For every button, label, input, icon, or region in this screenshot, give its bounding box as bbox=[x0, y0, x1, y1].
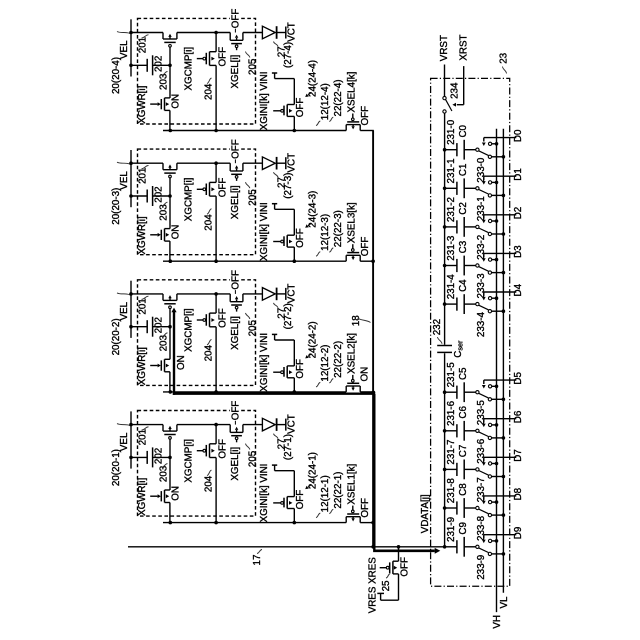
node: VEL-rail junction (block 3) bbox=[129, 161, 133, 165]
node: column-C7 junction bbox=[443, 468, 447, 472]
node: 233-1 VH junction bbox=[495, 181, 499, 185]
svg-text:ON: ON bbox=[176, 355, 187, 370]
capacitor C5 bbox=[445, 391, 457, 393]
svg-text:22(22-1): 22(22-1) bbox=[333, 472, 344, 509]
svg-text:XRST: XRST bbox=[459, 34, 470, 60]
svg-text:C5: C5 bbox=[458, 367, 469, 380]
node: rail-204 junction (block 1) bbox=[214, 423, 218, 427]
svg-text:C7: C7 bbox=[458, 445, 469, 458]
svg-text:201: 201 bbox=[138, 429, 149, 445]
capacitor C8 bbox=[445, 507, 457, 509]
svg-text:VEL: VEL bbox=[119, 171, 130, 190]
svg-text:C6: C6 bbox=[458, 406, 469, 419]
svg-text:C8: C8 bbox=[458, 483, 469, 496]
node: column-C1 junction bbox=[443, 187, 447, 191]
svg-text:205: 205 bbox=[247, 189, 258, 206]
svg-text:201: 201 bbox=[138, 168, 149, 184]
svg-text:D7: D7 bbox=[513, 449, 524, 462]
node: column-C2 junction bbox=[443, 225, 447, 229]
transistor 201 (block 1) bbox=[163, 425, 177, 458]
node: VEL-rail junction (block 2) bbox=[129, 292, 133, 296]
svg-text:233-7: 233-7 bbox=[476, 477, 487, 502]
wire: rail to diode (block 1) bbox=[243, 424, 263, 426]
node: 233-3 VH junction bbox=[495, 258, 499, 262]
switch 233-3 bbox=[476, 264, 479, 267]
svg-text:23: 23 bbox=[498, 52, 509, 63]
svg-text:XSEL2[k]: XSEL2[k] bbox=[347, 333, 358, 374]
svg-text:ON: ON bbox=[359, 367, 370, 382]
node: column-C4 junction bbox=[443, 302, 447, 306]
node: column-C5 junction bbox=[443, 390, 447, 394]
label OFF at 205 (block 2) bbox=[230, 278, 239, 281]
svg-text:XSEL3[k]: XSEL3[k] bbox=[347, 202, 358, 243]
svg-text:C3: C3 bbox=[458, 240, 469, 253]
wire: rail to diode (block 3) bbox=[243, 162, 263, 164]
node: 233-6 VH junction bbox=[495, 423, 499, 427]
VEL supply line (block 1) bbox=[130, 411, 132, 468]
svg-text:231-1: 231-1 bbox=[446, 158, 457, 183]
svg-text:233-4: 233-4 bbox=[476, 311, 487, 337]
wire: data line 12(12-1) bbox=[163, 522, 346, 524]
svg-text:VCT: VCT bbox=[286, 153, 297, 173]
control line D2 bbox=[484, 214, 517, 216]
node: 233-6 VL junction bbox=[502, 436, 506, 440]
node: 233-2 VH junction bbox=[495, 219, 499, 223]
svg-text:233-1: 233-1 bbox=[476, 196, 487, 221]
svg-text:12(12-2): 12(12-2) bbox=[320, 345, 331, 382]
XRST control line bbox=[463, 66, 465, 105]
svg-text:OFF: OFF bbox=[230, 9, 241, 29]
svg-text:205: 205 bbox=[247, 450, 258, 467]
svg-text:XGEL[i]: XGEL[i] bbox=[230, 447, 241, 481]
wire: VINI feed (block 2) bbox=[272, 334, 294, 366]
svg-text:205: 205 bbox=[247, 320, 258, 337]
OLED diode 27 (block 3) bbox=[262, 157, 285, 170]
svg-text:D4: D4 bbox=[513, 283, 524, 296]
wire: data line 12(12-3) bbox=[163, 260, 346, 262]
capacitor C3 bbox=[445, 265, 457, 267]
svg-text:233-8: 233-8 bbox=[476, 515, 487, 541]
VRST feed line bbox=[444, 65, 446, 97]
transistor 203 XGWR (block 1) bbox=[150, 490, 170, 503]
svg-text:202: 202 bbox=[154, 448, 165, 464]
svg-text:XGEL[i]: XGEL[i] bbox=[230, 54, 241, 88]
wire: VL rail bbox=[502, 129, 504, 593]
svg-text:231-0: 231-0 bbox=[446, 119, 457, 145]
transistor 201 (block 4) bbox=[163, 33, 177, 66]
node: XSEL1-trunk junction bbox=[371, 521, 375, 525]
node: 233-3 VL junction bbox=[502, 271, 506, 275]
svg-text:XGINI[k] VINI: XGINI[k] VINI bbox=[259, 464, 270, 523]
switch 233-5 bbox=[476, 391, 479, 394]
svg-text:VCT: VCT bbox=[286, 414, 297, 434]
wire: converter input column (lower) bbox=[444, 353, 446, 547]
node: 233-8 VH junction bbox=[495, 500, 499, 504]
node: VEL-rail junction (block 1) bbox=[129, 423, 133, 427]
capacitor 202 (block 4) bbox=[131, 55, 170, 75]
wire: data line 17 / VDATA[j] bbox=[128, 546, 445, 548]
svg-text:OFF: OFF bbox=[217, 439, 228, 459]
node: 24-12 junction (block 3) bbox=[293, 259, 297, 263]
transistor 204 XGCMP (block 2) bbox=[197, 294, 216, 392]
svg-text:231-4: 231-4 bbox=[446, 274, 457, 300]
node: 233-4 VH junction bbox=[495, 296, 499, 300]
transistor 22 XSEL4 (block 4) bbox=[346, 114, 360, 131]
node: cap-node junction (block 1) bbox=[168, 456, 172, 460]
svg-text:VDATA[j]: VDATA[j] bbox=[420, 494, 431, 533]
svg-text:231-6: 231-6 bbox=[446, 400, 457, 426]
node: 204-12 junction (block 2) bbox=[214, 390, 218, 394]
svg-text:(27-1): (27-1) bbox=[283, 434, 294, 460]
svg-text:OFF: OFF bbox=[360, 498, 371, 518]
svg-text:XGWR[i]: XGWR[i] bbox=[137, 216, 148, 254]
svg-text:D8: D8 bbox=[513, 487, 524, 500]
switch 233-9 bbox=[476, 545, 479, 548]
node: column-C8 junction bbox=[443, 506, 447, 510]
wire: VINI feed (block 3) bbox=[272, 204, 294, 236]
svg-text:12(12-1): 12(12-1) bbox=[320, 475, 331, 512]
capacitor 202 (block 2) bbox=[131, 317, 170, 337]
wire: VEL rail segment a (block 4) bbox=[131, 32, 163, 34]
switch 233-1 bbox=[476, 187, 479, 190]
svg-text:XGEL[i]: XGEL[i] bbox=[230, 316, 241, 350]
svg-text:D2: D2 bbox=[513, 207, 524, 220]
wire: VINI feed (block 1) bbox=[272, 465, 294, 497]
transistor 203 XGWR (block 4) bbox=[150, 98, 170, 111]
svg-text:OFF: OFF bbox=[360, 237, 371, 257]
transistor 24 XGINI (block 2) bbox=[273, 366, 294, 392]
svg-text:232: 232 bbox=[432, 319, 443, 335]
node: 233-4 VL junction bbox=[502, 309, 506, 313]
transistor 205 XGEL (block 1) bbox=[230, 425, 243, 443]
wire: VEL rail segment b (block 1) bbox=[177, 424, 230, 426]
svg-text:202: 202 bbox=[154, 317, 165, 333]
node: 204-12 junction (block 3) bbox=[214, 259, 218, 263]
svg-text:201: 201 bbox=[138, 37, 149, 53]
node: 233-5 VL junction bbox=[502, 398, 506, 402]
svg-text:OFF: OFF bbox=[360, 106, 371, 126]
node: 233-8 VL junction bbox=[502, 513, 506, 517]
svg-text:XGWR[i]: XGWR[i] bbox=[137, 85, 148, 123]
node: 204-12 junction (block 1) bbox=[214, 521, 218, 525]
svg-text:C1: C1 bbox=[458, 164, 469, 177]
svg-text:203: 203 bbox=[158, 204, 169, 221]
node: XSEL2-trunk junction bbox=[371, 391, 375, 395]
svg-text:ON: ON bbox=[170, 94, 181, 109]
svg-text:(27-3): (27-3) bbox=[283, 173, 294, 199]
VCT terminal (block 1) bbox=[285, 419, 287, 431]
wire: VEL rail segment a (block 1) bbox=[131, 424, 163, 426]
svg-text:22(22-3): 22(22-3) bbox=[333, 210, 344, 247]
svg-text:(27-2): (27-2) bbox=[283, 303, 294, 329]
wire: VDATA trunk 18 bbox=[372, 131, 374, 547]
node: 24-12 junction (block 2) bbox=[293, 390, 297, 394]
svg-text:233-3: 233-3 bbox=[476, 273, 487, 299]
svg-text:24(24-1): 24(24-1) bbox=[307, 452, 318, 489]
node: VEL-rail junction (block 4) bbox=[129, 31, 133, 35]
svg-text:OFF: OFF bbox=[295, 490, 306, 510]
switch 233-4 bbox=[476, 302, 479, 305]
node: 233-7 VH junction bbox=[495, 462, 499, 466]
svg-text:OFF: OFF bbox=[217, 308, 228, 328]
svg-text:25: 25 bbox=[381, 580, 392, 591]
control line D8 bbox=[484, 495, 517, 497]
svg-text:OFF: OFF bbox=[295, 98, 306, 118]
transistor 205 XGEL (block 3) bbox=[230, 163, 243, 181]
pixel circuit 20(20-1) dashed boundary bbox=[138, 411, 256, 517]
control line D9 bbox=[484, 534, 517, 536]
bold path along data line 12-2 bbox=[173, 393, 375, 395]
node: 233-7 VL junction bbox=[502, 475, 506, 479]
transistor 22 XSEL3 (block 3) bbox=[346, 244, 360, 261]
node: XSEL3-trunk junction bbox=[371, 259, 375, 263]
label OFF at 205 (block 4) bbox=[230, 17, 239, 20]
VCT terminal (block 2) bbox=[285, 288, 287, 300]
node: 233-1 VL junction bbox=[502, 194, 506, 198]
OLED diode 27 (block 4) bbox=[262, 26, 285, 39]
capacitor C7 bbox=[445, 468, 457, 470]
node: rail-204 junction (block 3) bbox=[214, 161, 218, 165]
svg-text:17: 17 bbox=[252, 555, 263, 566]
svg-text:20(20-1): 20(20-1) bbox=[111, 449, 122, 486]
svg-text:231-2: 231-2 bbox=[446, 197, 457, 222]
svg-text:204: 204 bbox=[203, 83, 214, 100]
OLED diode 27 (block 1) bbox=[262, 418, 285, 431]
svg-text:OFF: OFF bbox=[230, 270, 241, 290]
svg-text:231-7: 231-7 bbox=[446, 440, 457, 465]
wire: gate node (block 2) bbox=[169, 327, 171, 360]
bold path to converter box bbox=[373, 549, 435, 552]
svg-text:VCT: VCT bbox=[286, 284, 297, 304]
svg-text:22(22-2): 22(22-2) bbox=[333, 341, 344, 378]
svg-text:OFF: OFF bbox=[295, 359, 306, 379]
wire: VEL rail segment b (block 3) bbox=[177, 162, 230, 164]
svg-text:D6: D6 bbox=[513, 410, 524, 423]
svg-text:203: 203 bbox=[158, 335, 169, 352]
label OFF at 205 (block 1) bbox=[230, 409, 239, 412]
svg-text:XGWR[i]: XGWR[i] bbox=[137, 347, 148, 385]
capacitor C0 bbox=[445, 149, 457, 151]
svg-text:Cser: Cser bbox=[453, 340, 465, 358]
svg-text:22(22-4): 22(22-4) bbox=[333, 79, 344, 116]
switch 233-0 bbox=[476, 148, 479, 151]
svg-text:202: 202 bbox=[154, 56, 165, 72]
control line D4 bbox=[484, 291, 517, 293]
svg-text:18: 18 bbox=[351, 315, 362, 326]
wire: data line 12(12-2) bbox=[163, 391, 346, 393]
svg-text:D3: D3 bbox=[513, 245, 524, 258]
wire: gate node (block 4) bbox=[169, 65, 171, 98]
transistor 24 XGINI (block 1) bbox=[273, 497, 294, 523]
svg-text:XSEL1[k]: XSEL1[k] bbox=[347, 463, 358, 504]
pixel circuit 20(20-4) dashed boundary bbox=[138, 18, 256, 124]
control line D7 bbox=[484, 456, 517, 458]
node: 203-12 junction (block 3) bbox=[169, 259, 173, 263]
transistor 204 XGCMP (block 1) bbox=[197, 425, 216, 523]
svg-text:204: 204 bbox=[203, 345, 214, 362]
svg-text:D1: D1 bbox=[513, 168, 524, 181]
wire: data line 12(12-4) bbox=[163, 130, 346, 132]
svg-text:201: 201 bbox=[138, 298, 149, 314]
wire: 203 to data line (block 3) bbox=[169, 241, 171, 261]
svg-text:OFF: OFF bbox=[230, 401, 241, 421]
svg-text:ON: ON bbox=[170, 486, 181, 501]
node: 25-17 junction bbox=[397, 545, 401, 549]
transistor 24 XGINI (block 4) bbox=[273, 105, 294, 131]
node: 24-12 junction (block 4) bbox=[293, 129, 297, 133]
node: 233-0 VH junction bbox=[495, 142, 499, 146]
wire: 22-line to trunk (block 3) bbox=[360, 260, 374, 262]
svg-text:C9: C9 bbox=[458, 522, 469, 535]
svg-text:C0: C0 bbox=[458, 124, 469, 137]
svg-text:20(20-3): 20(20-3) bbox=[111, 188, 122, 225]
node: 233-9 VL junction bbox=[502, 552, 506, 556]
svg-text:XSEL4[k]: XSEL4[k] bbox=[347, 71, 358, 112]
node: cap-node junction (block 3) bbox=[168, 194, 172, 198]
svg-text:VRST: VRST bbox=[439, 35, 450, 61]
svg-text:24(24-3): 24(24-3) bbox=[307, 191, 318, 228]
switch 233-8 bbox=[476, 506, 479, 509]
wire: 203 to data line (block 2) bbox=[169, 372, 171, 392]
svg-text:XGCMP[i]: XGCMP[i] bbox=[183, 308, 194, 352]
control line D0 bbox=[484, 137, 517, 139]
svg-text:XGCMP[i]: XGCMP[i] bbox=[183, 47, 194, 91]
svg-text:VCT: VCT bbox=[286, 22, 297, 42]
pixel circuit 20(20-2) dashed boundary bbox=[138, 280, 256, 386]
svg-text:12(12-3): 12(12-3) bbox=[320, 214, 331, 251]
svg-text:231-5: 231-5 bbox=[446, 362, 457, 388]
transistor 205 XGEL (block 2) bbox=[230, 294, 243, 312]
wire: gate node (block 3) bbox=[169, 196, 171, 229]
wire: 22-line to trunk (block 4) bbox=[360, 130, 374, 132]
switch 233-7 bbox=[476, 468, 479, 471]
svg-text:203: 203 bbox=[158, 465, 169, 482]
svg-text:20(20-4): 20(20-4) bbox=[111, 57, 122, 94]
node: 203-12 junction (block 4) bbox=[169, 129, 173, 133]
node: column-C0 junction bbox=[443, 148, 447, 152]
svg-text:202: 202 bbox=[154, 186, 165, 202]
node: column-C3 junction bbox=[443, 264, 447, 268]
wire: VEL rail segment b (block 2) bbox=[177, 293, 230, 295]
transistor 204 XGCMP (block 4) bbox=[197, 33, 216, 131]
svg-text:233-5: 233-5 bbox=[476, 400, 487, 426]
wire: VH rail bbox=[496, 129, 498, 612]
svg-text:XGINI[k] VINI: XGINI[k] VINI bbox=[259, 202, 270, 261]
capacitor C9 bbox=[445, 546, 457, 548]
svg-text:20(20-2): 20(20-2) bbox=[111, 318, 122, 355]
switch 233-6 bbox=[476, 429, 479, 432]
node: 233-5 VH junction bbox=[495, 385, 499, 389]
transistor 201 (block 2) bbox=[163, 294, 177, 327]
VEL supply line (block 2) bbox=[130, 281, 132, 338]
node: VEL-cap junction (block 3) bbox=[129, 194, 133, 198]
wire: 22-line to trunk (block 1) bbox=[360, 522, 374, 524]
VEL supply line (block 3) bbox=[130, 150, 132, 207]
svg-text:VH: VH bbox=[492, 615, 503, 629]
wire: 203 to data line (block 1) bbox=[169, 503, 171, 523]
node: 233-9 VH junction bbox=[495, 539, 499, 543]
node: rail-204 junction (block 2) bbox=[214, 292, 218, 296]
label OFF at 205 (block 3) bbox=[230, 148, 239, 151]
svg-text:ON: ON bbox=[170, 225, 181, 240]
svg-text:205: 205 bbox=[247, 58, 258, 75]
control line D1 bbox=[484, 175, 517, 177]
node: column-C6 junction bbox=[443, 429, 447, 433]
svg-text:233-2: 233-2 bbox=[476, 235, 487, 260]
control line D5 bbox=[484, 379, 517, 381]
capacitor C6 bbox=[445, 430, 457, 432]
capacitor 202 (block 3) bbox=[131, 186, 170, 206]
bold path down trunk bbox=[373, 394, 375, 550]
transistor 201 (block 3) bbox=[163, 163, 177, 196]
svg-text:VEL: VEL bbox=[119, 301, 130, 320]
svg-text:XGEL[i]: XGEL[i] bbox=[230, 185, 241, 219]
svg-text:XGINI[k] VINI: XGINI[k] VINI bbox=[259, 72, 270, 131]
control line D3 bbox=[484, 252, 517, 254]
transistor 22 XSEL1 (block 1) bbox=[346, 506, 360, 523]
node: 204-12 junction (block 4) bbox=[214, 129, 218, 133]
wire: rail to diode (block 2) bbox=[243, 293, 263, 295]
wire: VEL rail segment a (block 2) bbox=[131, 293, 163, 295]
svg-text:OFF: OFF bbox=[400, 557, 411, 577]
transistor 204 XGCMP (block 3) bbox=[197, 163, 216, 261]
D/A converter block 23 dash-dot boundary bbox=[431, 78, 510, 586]
svg-text:XGCMP[i]: XGCMP[i] bbox=[183, 177, 194, 221]
switch 233-2 bbox=[476, 225, 479, 228]
svg-text:233-6: 233-6 bbox=[476, 438, 487, 464]
capacitor C2 bbox=[445, 226, 457, 228]
node: 203-12 junction (block 1) bbox=[169, 521, 173, 525]
pixel circuit 20(20-3) dashed boundary bbox=[138, 149, 256, 255]
transistor 24 XGINI (block 3) bbox=[273, 235, 294, 261]
svg-text:C4: C4 bbox=[458, 279, 469, 292]
wire: 22-line to trunk (block 2) bbox=[360, 391, 373, 393]
svg-text:D5: D5 bbox=[513, 372, 524, 385]
node: 233-2 VL junction bbox=[502, 232, 506, 236]
wire: converter input column (upper) bbox=[444, 113, 446, 345]
svg-text:234: 234 bbox=[450, 82, 461, 99]
capacitor Cser 232 bbox=[437, 345, 452, 347]
svg-text:231-9: 231-9 bbox=[446, 517, 457, 542]
capacitor C1 bbox=[445, 187, 457, 189]
capacitor 202 (block 1) bbox=[131, 447, 170, 467]
svg-text:D9: D9 bbox=[513, 527, 524, 540]
node: 233-0 VL junction bbox=[502, 155, 506, 159]
OLED diode 27 (block 2) bbox=[262, 288, 285, 301]
svg-text:204: 204 bbox=[203, 214, 214, 231]
svg-text:12(12-4): 12(12-4) bbox=[320, 83, 331, 120]
svg-text:OFF: OFF bbox=[217, 47, 228, 67]
node: VDATA-C9 junction bbox=[443, 545, 447, 549]
VEL supply line (block 4) bbox=[130, 19, 132, 76]
transistor 25 reset + VRES terminal bbox=[377, 547, 398, 600]
svg-text:OFF: OFF bbox=[230, 139, 241, 159]
control line D6 bbox=[484, 418, 517, 420]
svg-text:XGWR[i]: XGWR[i] bbox=[137, 478, 148, 516]
svg-text:233-9: 233-9 bbox=[476, 555, 487, 580]
svg-text:233-0: 233-0 bbox=[476, 157, 487, 183]
node: VEL-cap junction (block 4) bbox=[129, 64, 133, 68]
svg-text:(27-4): (27-4) bbox=[283, 42, 294, 68]
svg-text:XGCMP[i]: XGCMP[i] bbox=[183, 439, 194, 483]
capacitor C4 bbox=[445, 303, 457, 305]
wire: gate node (block 1) bbox=[169, 457, 171, 490]
svg-text:OFF: OFF bbox=[295, 228, 306, 248]
svg-text:204: 204 bbox=[203, 475, 214, 492]
wire: rail to diode (block 4) bbox=[243, 32, 263, 34]
node: rail-204 junction (block 4) bbox=[214, 31, 218, 35]
VCT terminal (block 3) bbox=[285, 157, 287, 169]
